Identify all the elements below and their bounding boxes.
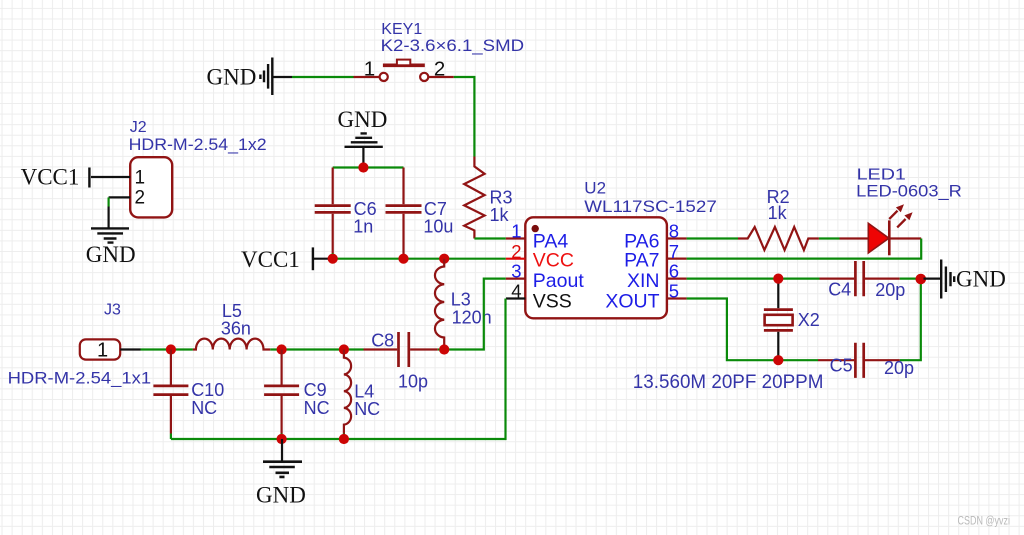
node junction C10 top bbox=[166, 344, 176, 354]
svg-text:8: 8 bbox=[669, 221, 679, 242]
svg-text:13.560M 20PF 20PPM: 13.560M 20PF 20PPM bbox=[633, 372, 824, 393]
crystal X2 bbox=[764, 279, 820, 361]
svg-text:C5: C5 bbox=[830, 356, 853, 376]
LED1 arrow 1 bbox=[889, 211, 897, 219]
svg-text:GND: GND bbox=[256, 482, 306, 507]
pushbutton KEY1 K2-3.6x6.1_SMD bbox=[354, 21, 525, 81]
node junction C7 bbox=[398, 254, 408, 264]
svg-text:GND: GND bbox=[207, 65, 257, 90]
svg-text:VSS: VSS bbox=[533, 291, 572, 313]
svg-text:X2: X2 bbox=[798, 310, 820, 330]
wire U2 pin5 to C5 X2 bbox=[687, 299, 818, 361]
power flag VCC1 (at J2 pin1) bbox=[21, 165, 90, 190]
svg-text:VCC: VCC bbox=[533, 250, 574, 272]
svg-text:LED-0603_R: LED-0603_R bbox=[856, 182, 962, 200]
LED1 arrow 2 bbox=[897, 219, 905, 227]
wire J2 pin2 to ground bbox=[107, 197, 109, 206]
svg-text:HDR-M-2.54_1x1: HDR-M-2.54_1x1 bbox=[8, 370, 152, 388]
svg-text:J2: J2 bbox=[130, 119, 147, 136]
svg-text:10p: 10p bbox=[398, 371, 428, 391]
ground flag GND (right) bbox=[924, 260, 1006, 299]
U2 pin 3 stub bbox=[506, 278, 526, 280]
svg-text:3: 3 bbox=[511, 261, 521, 282]
node junction C9 bottom bbox=[277, 434, 287, 444]
svg-text:VCC1: VCC1 bbox=[241, 247, 300, 272]
integrated circuit U2 WL117SC-1527 bbox=[506, 179, 717, 319]
svg-text:10u: 10u bbox=[423, 217, 453, 237]
wire C8 to L3 node bbox=[438, 348, 444, 350]
U2 pin 8 stub bbox=[667, 237, 687, 239]
node junction X2 bottom bbox=[773, 355, 783, 365]
svg-text:1k: 1k bbox=[768, 203, 788, 223]
svg-text:VCC1: VCC1 bbox=[21, 165, 80, 190]
svg-text:NC: NC bbox=[304, 398, 330, 418]
U2 pin 6 stub bbox=[667, 278, 687, 280]
wire U2 pin6 to C4 bbox=[687, 278, 820, 280]
svg-text:GND: GND bbox=[86, 242, 136, 267]
svg-text:36n: 36n bbox=[221, 319, 251, 339]
inductor L4 NC bbox=[344, 350, 380, 440]
svg-text:1: 1 bbox=[511, 221, 521, 242]
svg-text:2: 2 bbox=[434, 58, 445, 81]
U2 pin 2 stub bbox=[506, 258, 526, 260]
svg-text:1: 1 bbox=[97, 339, 108, 361]
inductor L3 120n bbox=[435, 259, 492, 350]
svg-text:U2: U2 bbox=[584, 179, 606, 198]
U2 pin 4 stub bbox=[506, 297, 525, 299]
capacitor C6 1n bbox=[315, 168, 377, 259]
svg-text:XIN: XIN bbox=[627, 270, 660, 292]
wire U2 pin8 to R2 bbox=[687, 237, 738, 239]
node junction GND right bbox=[916, 274, 927, 285]
ground flag GND (top left) bbox=[207, 58, 293, 96]
svg-text:1: 1 bbox=[364, 58, 375, 81]
capacitor C10 NC bbox=[153, 350, 224, 440]
node junction GND C6 C7 bbox=[358, 162, 368, 172]
svg-text:LED1: LED1 bbox=[857, 167, 906, 184]
wire C4 to GND bbox=[900, 278, 921, 280]
svg-text:WL117SC-1527: WL117SC-1527 bbox=[584, 197, 717, 216]
svg-text:2: 2 bbox=[511, 241, 521, 262]
svg-text:Paout: Paout bbox=[533, 270, 585, 292]
svg-text:C4: C4 bbox=[828, 280, 851, 300]
svg-text:5: 5 bbox=[669, 281, 679, 302]
svg-text:GND: GND bbox=[338, 107, 388, 132]
node junction L3 top bbox=[439, 254, 449, 264]
U2 pin1 marker dot bbox=[532, 225, 539, 232]
svg-text:XOUT: XOUT bbox=[605, 291, 659, 313]
wire R3 to U2 pin1 bbox=[474, 237, 505, 239]
capacitor C4 20p bbox=[820, 261, 906, 300]
wire KEY1 pin2 to R3 bbox=[454, 77, 475, 157]
capacitor C7 10u bbox=[386, 168, 454, 259]
svg-text:K2-3.6×6.1_SMD: K2-3.6×6.1_SMD bbox=[381, 37, 525, 55]
resistor R3 1k bbox=[464, 157, 512, 239]
svg-text:NC: NC bbox=[354, 399, 380, 419]
wire LED1 cathode to U2 pin7 bbox=[687, 239, 922, 259]
svg-text:20p: 20p bbox=[884, 358, 914, 378]
svg-text:KEY1: KEY1 bbox=[381, 21, 422, 38]
wire GND net down to C5 bbox=[900, 279, 921, 361]
wire GND to KEY1 pin1 bbox=[292, 76, 354, 78]
ground GND (below J2) bbox=[86, 207, 136, 267]
node junction L3 bottom bbox=[439, 344, 449, 354]
wire L3 bottom to U2 pin3 bbox=[444, 279, 506, 350]
resistor R2 1k bbox=[738, 187, 819, 250]
node junction C9 top bbox=[277, 344, 287, 354]
node junction C6 bbox=[328, 254, 338, 264]
svg-text:1n: 1n bbox=[353, 217, 373, 237]
node junction X2 top bbox=[773, 274, 783, 284]
wire VCC1 to U2 pin2 bbox=[330, 258, 506, 260]
svg-text:20p: 20p bbox=[875, 280, 905, 300]
U2 pin 1 stub bbox=[506, 237, 526, 239]
ground GND (bottom) bbox=[256, 439, 306, 507]
wire R2 to LED1 bbox=[819, 237, 840, 239]
capacitor C5 20p bbox=[818, 343, 914, 378]
svg-text:4: 4 bbox=[511, 281, 521, 302]
header J2 HDR-M-2.54_1x2 bbox=[91, 119, 267, 217]
svg-text:1k: 1k bbox=[490, 205, 510, 225]
svg-text:6: 6 bbox=[669, 261, 679, 282]
wire L5 to C8 bbox=[270, 348, 363, 350]
wire J3 to L5 bbox=[141, 348, 193, 350]
svg-text:PA7: PA7 bbox=[624, 250, 659, 272]
U2 pin 5 stub bbox=[667, 297, 687, 299]
svg-text:HDR-M-2.54_1x2: HDR-M-2.54_1x2 bbox=[129, 136, 267, 154]
header J3 HDR-M-2.54_1x1 bbox=[8, 302, 152, 388]
power flag VCC1 (middle) bbox=[241, 247, 330, 272]
node junction L4 top bbox=[339, 344, 349, 354]
capacitor C8 10p bbox=[364, 330, 438, 391]
svg-text:NC: NC bbox=[191, 398, 217, 418]
capacitor C9 NC bbox=[264, 350, 330, 440]
wire U2 pin4 to bottom ground rail bbox=[171, 299, 506, 440]
LED LED1 LED-0603_R bbox=[840, 167, 962, 256]
inductor L5 36n bbox=[193, 301, 270, 350]
svg-text:2: 2 bbox=[135, 188, 146, 209]
svg-text:1: 1 bbox=[135, 168, 146, 189]
wire C6 top to C7 top bbox=[333, 166, 404, 168]
svg-text:120n: 120n bbox=[452, 307, 492, 327]
svg-text:7: 7 bbox=[669, 241, 679, 262]
svg-text:GND: GND bbox=[956, 267, 1006, 292]
U2 pin 7 stub bbox=[667, 258, 687, 260]
svg-text:J3: J3 bbox=[104, 302, 121, 319]
svg-text:CSDN @yvzi: CSDN @yvzi bbox=[958, 516, 1011, 528]
svg-text:C8: C8 bbox=[371, 330, 394, 350]
ground GND (above C6 C7) bbox=[338, 107, 388, 167]
node junction L4 bottom bbox=[339, 434, 349, 444]
